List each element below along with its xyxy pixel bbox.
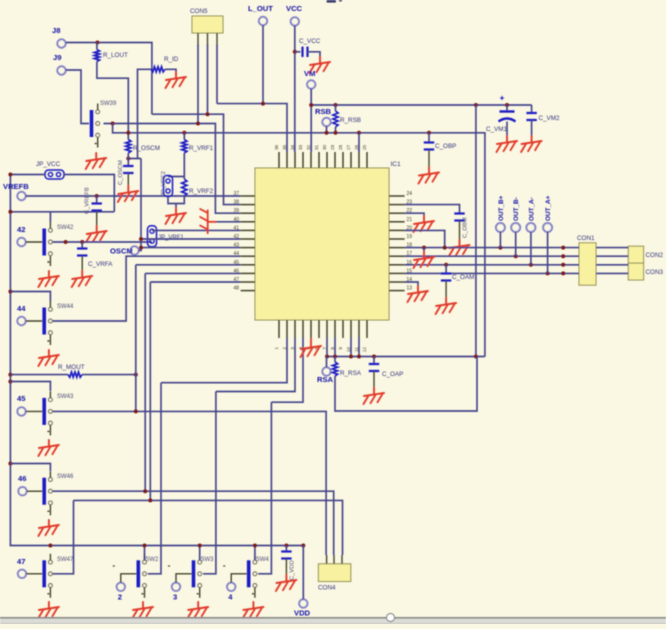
connector CON1 body: [579, 243, 596, 285]
wire VCC down to IC top pin: [294, 26, 296, 152]
svg-text:46: 46: [18, 474, 26, 483]
capacitor C_VDD: [281, 552, 291, 559]
port RSA: [322, 367, 330, 375]
wire CON1 to CON2 row2: [596, 255, 628, 257]
wire row17 to CON1: [405, 255, 579, 257]
connector CON4 body: [318, 564, 350, 582]
svg-text:21: 21: [407, 217, 413, 223]
wire row16 to CON1: [405, 264, 579, 266]
wire RSB stub: [326, 126, 328, 133]
capacitor C_OAP: [369, 364, 379, 371]
jumper JP_VRF2: [164, 176, 173, 197]
wire OSCM riser: [128, 159, 141, 251]
wire C_VDD bottom lead: [285, 559, 287, 576]
junction SW47 out: [48, 498, 152, 547]
wire rail y114 to IC pin38: [152, 114, 241, 204]
port J9: [57, 66, 65, 74]
wire rail y132 riser to IC top pin: [358, 133, 360, 152]
junction L_OUT net: [261, 102, 265, 106]
svg-text:42: 42: [17, 225, 25, 234]
svg-text:R_RSB: R_RSB: [340, 117, 361, 124]
switch SW46: [18, 471, 52, 515]
switch SW2: [113, 554, 147, 598]
svg-text:24: 24: [407, 191, 413, 197]
wire SW42 out to JP_VRF1: [53, 241, 152, 243]
wire R_RSA bottom loop: [335, 357, 477, 412]
wire CON5 pin1 down: [197, 45, 199, 124]
capacitor C_OSCM: [123, 166, 133, 173]
resistor R_ID: [151, 67, 165, 72]
ground at C_OBM: [449, 240, 470, 256]
wire vertical x476 down: [475, 105, 477, 357]
port 3: [172, 583, 180, 591]
svg-text:JP_VCC: JP_VCC: [36, 161, 61, 168]
port RSB: [322, 118, 330, 126]
wire VDD riser: [302, 546, 304, 600]
wire C_OBP bottom lead: [428, 150, 430, 168]
junction SW42 out: [64, 240, 85, 244]
port J8: [57, 39, 65, 47]
svg-text:J8: J8: [52, 26, 60, 35]
connector CON5 body: [192, 16, 223, 33]
svg-text:SW44: SW44: [57, 304, 74, 310]
wire VM down to IC top pin: [310, 89, 312, 152]
wire CON5 pin2 down: [207, 45, 209, 114]
junction VREFB C_VREFB: [95, 194, 99, 198]
svg-text:C_VRFA: C_VRFA: [88, 261, 113, 268]
svg-text:JP_VRF1: JP_VRF1: [158, 235, 184, 241]
wire port 3 to SW3: [176, 574, 192, 583]
wire IC pin47 riser: [150, 282, 240, 500]
capacitor C_VRFA: [77, 249, 87, 256]
wire R_RSA top lead: [334, 357, 336, 363]
junction C_VDD rail: [284, 544, 305, 548]
clipped text fragment at top edge: [327, 0, 343, 3]
svg-text:CON3: CON3: [646, 269, 664, 276]
wire IC pin14 stub to ground: [405, 282, 418, 286]
port 2: [117, 583, 125, 591]
svg-text:C_VM2: C_VM2: [539, 115, 560, 122]
junctions OUT rows: [422, 246, 565, 276]
svg-text:2: 2: [118, 593, 122, 602]
switch SW42: [17, 222, 52, 266]
wire OUT_B- stub: [515, 232, 517, 256]
wire IC pin20 jog: [405, 230, 445, 247]
ground at C_VREFB: [86, 226, 107, 242]
svg-text:27: 27: [346, 144, 351, 150]
wire C_OBP top lead: [428, 133, 430, 143]
ground under IC1: [301, 341, 322, 357]
wire C_VRFA top lead: [81, 242, 83, 249]
ground at SW47: [38, 602, 59, 618]
junction SW43 out: [134, 409, 138, 413]
wire CON1 to CON2 row1: [596, 247, 628, 249]
junction R_MOUT: [134, 373, 138, 377]
svg-text:19: 19: [407, 234, 413, 240]
ground at C_OAP: [364, 388, 385, 404]
wire C_VREFB top lead: [96, 196, 98, 204]
resistor R_MOUT: [68, 372, 82, 377]
wire SW39 out rail y123 to IC pin39: [104, 124, 241, 214]
wire OUT_A- stub: [530, 232, 532, 265]
wire J8 to rail: [66, 43, 152, 115]
svg-text:CON1: CON1: [577, 235, 595, 242]
wire C_OSCM bottom lead: [127, 173, 129, 186]
svg-text:12: 12: [362, 347, 367, 353]
ground at C_VM1: [497, 136, 518, 152]
junction J8 R_LOUT: [95, 41, 209, 117]
wire C_VCC right lead: [308, 52, 321, 57]
svg-text:44: 44: [17, 304, 26, 313]
wire SW2 out riser to IC bottom pin: [148, 338, 287, 574]
wire C_VRFA bottom lead: [81, 256, 83, 272]
wire C_OAP top lead: [373, 357, 375, 365]
svg-text:RSA: RSA: [317, 375, 334, 384]
svg-text:JP_VRF2: JP_VRF2: [161, 171, 167, 196]
IC U1 body IC1: [255, 168, 389, 320]
ground at C_OSCM: [118, 186, 139, 202]
jumper JP_VRF1: [148, 226, 157, 247]
wire C_VM1 top lead: [506, 105, 508, 112]
svg-text:C_OBM: C_OBM: [463, 217, 469, 238]
wire IC pin40 left to rake ground: [215, 221, 241, 223]
svg-text:RSB: RSB: [315, 107, 332, 116]
wire IC bottom pin risers to RSA net: [327, 338, 359, 357]
wire RSA stub: [326, 357, 328, 368]
wire C_VM2 top lead: [531, 105, 533, 113]
svg-text:CON5: CON5: [190, 8, 208, 15]
wire C_OAP bottom lead: [373, 371, 375, 388]
svg-text:SW4: SW4: [256, 557, 270, 563]
svg-text:29: 29: [330, 144, 335, 150]
switch SW44: [17, 301, 52, 345]
wire CON1 to CON3 row2: [596, 272, 628, 274]
wire SW46 out to CON4 pin2: [53, 491, 334, 555]
junctions rail y132: [126, 131, 431, 135]
ground at SW39: [86, 153, 107, 169]
wire C_VM1 bottom lead: [506, 122, 508, 137]
wire R_LOUT bottom to R_OSCM: [97, 62, 128, 140]
svg-text:R_VRF2: R_VRF2: [189, 188, 214, 195]
svg-text:C_OAP: C_OAP: [382, 371, 403, 378]
ground at R_ID: [166, 72, 187, 88]
wire SW47 out to CON4 pin3: [53, 500, 343, 573]
wire C_VREFB bottom lead: [96, 211, 98, 227]
wire VRF bottoms join: [168, 196, 184, 208]
wire OUT_B+ stub: [499, 232, 501, 248]
wire SW43 top feed: [10, 382, 50, 392]
svg-text:SW42: SW42: [57, 225, 74, 231]
wire R_VRF2 top lead: [183, 177, 185, 180]
wire OUT_A+ stub: [547, 232, 549, 273]
svg-text:47: 47: [17, 557, 25, 566]
wire CON5 pin3 to IC top pin net L_OUT: [217, 45, 287, 152]
wire SW44 top feed: [10, 292, 50, 302]
wire SW2 top contact to rail: [144, 546, 146, 561]
connector CON3 body: [628, 263, 643, 280]
svg-text:VCC: VCC: [286, 4, 303, 13]
svg-text:9: 9: [338, 347, 343, 350]
junction SW2 top rail: [143, 544, 147, 548]
wire row18 to CON1: [405, 247, 579, 249]
junctions OSCM riser: [126, 157, 143, 250]
svg-text:L_OUT: L_OUT: [248, 4, 273, 13]
wire port 4 to SW4: [231, 574, 247, 583]
svg-text:SW3: SW3: [201, 557, 215, 563]
ground at C_VDD: [276, 575, 297, 591]
svg-text:CON2: CON2: [646, 252, 664, 259]
IC1 pin numbers: [233, 144, 412, 352]
wire R_VRF1 bottom: [168, 153, 184, 177]
switch SW43: [17, 391, 52, 435]
svg-text:OUT_A-: OUT_A-: [528, 197, 535, 221]
switch SW47: [18, 554, 53, 598]
svg-text:SW47: SW47: [57, 557, 74, 563]
svg-text:C_OBP: C_OBP: [435, 143, 456, 150]
port VM: [307, 80, 315, 88]
svg-text:31: 31: [314, 144, 319, 150]
wire ground stem under IC1: [310, 338, 312, 341]
switch SW39: [92, 104, 100, 148]
port VCC: [291, 17, 299, 25]
port VREFB: [17, 192, 25, 200]
ground at SW42: [38, 271, 59, 287]
svg-text:SW46: SW46: [57, 474, 74, 480]
capacitor C_OAM: [441, 274, 451, 281]
wire JP_VRF1 top to IC pin41: [152, 229, 241, 231]
wire C_VDD top lead: [285, 546, 287, 552]
wire port 2 to SW2: [121, 574, 137, 583]
wire CON1 to CON3 row1: [596, 264, 628, 266]
svg-text:OSCM: OSCM: [110, 247, 133, 256]
wire rail y132 to right staircase: [113, 124, 485, 357]
port OUT_A+: [543, 223, 552, 232]
svg-text:C_VM1: C_VM1: [486, 126, 507, 133]
wire R_ID left down to OSCM net: [138, 69, 152, 158]
ground at SW46: [38, 520, 59, 536]
wire left rail: [10, 175, 303, 546]
capacitor C_OBM: [454, 214, 464, 221]
wire R_MOUT left lead: [10, 374, 68, 376]
svg-text:C_OSCM: C_OSCM: [118, 160, 124, 185]
svg-text:R_RSA: R_RSA: [340, 370, 362, 377]
wire C_OAM bottom lead: [445, 281, 447, 299]
svg-text:OUT_B-: OUT_B-: [513, 197, 520, 221]
wire SW43 out to CON4 pin1: [53, 411, 327, 555]
port OUT_B+: [496, 223, 505, 232]
wire SW3 top contact to rail: [199, 546, 201, 561]
wire R_LOUT top: [96, 43, 98, 50]
port 4: [227, 583, 235, 591]
capacitor C_VCC: [303, 47, 308, 57]
junction rail y123: [111, 122, 200, 126]
wire SW46 top feed: [10, 464, 50, 472]
junction SW46 out: [143, 489, 147, 493]
wire row15 to CON1: [405, 272, 579, 274]
wire C_OAM top lead: [445, 265, 447, 274]
ground at SW43: [38, 440, 59, 456]
wire SW44 out to IC pin44: [53, 256, 241, 321]
resistor R_VRF2: [182, 179, 187, 196]
port L_OUT: [259, 17, 267, 25]
ground at C_VRFA: [72, 271, 93, 287]
port OSCM: [130, 246, 138, 254]
IC1 pin stubs: [241, 152, 405, 338]
CON5 pin stubs: [198, 33, 217, 46]
wire IC pin46 riser: [145, 273, 241, 491]
svg-text:CON4: CON4: [318, 585, 336, 592]
port VDD: [299, 599, 307, 607]
resistor R_OSCM: [126, 140, 131, 154]
junction SW4 top rail: [253, 544, 257, 548]
svg-text:R_VRF1: R_VRF1: [189, 145, 214, 152]
wire R_ID right: [165, 69, 176, 72]
junctions left rail: [8, 173, 12, 466]
wire SW3 out riser to IC bottom pin: [203, 338, 295, 574]
svg-text:32: 32: [306, 144, 311, 150]
ground C right of IC: [408, 286, 429, 302]
ground at C_VM2: [521, 136, 542, 152]
ground at C_VCC: [310, 57, 331, 73]
svg-text:R_ID: R_ID: [164, 56, 179, 63]
connector CON2 body: [628, 246, 643, 263]
wire R_OSCM to C_OSCM: [127, 153, 129, 166]
svg-text:1: 1: [274, 347, 279, 350]
CON4 pin stubs: [327, 555, 342, 564]
junction VCC C_VCC: [293, 50, 297, 54]
svg-text:C_VREFB: C_VREFB: [85, 187, 91, 214]
capacitor C_OBP: [424, 143, 434, 150]
wire R_VRF1 top lead: [183, 133, 185, 140]
svg-text:36: 36: [274, 144, 279, 150]
capacitor C_VM1 polarized: [499, 96, 516, 122]
svg-text:45: 45: [17, 394, 26, 403]
wire rail y105 VM to C_VM2: [311, 104, 531, 106]
wire J9 to SW39: [66, 70, 89, 124]
svg-text:3: 3: [173, 593, 177, 602]
wire C_VM2 bottom lead: [531, 120, 533, 136]
svg-text:C_VDD: C_VDD: [290, 560, 296, 580]
svg-text:VREFB: VREFB: [3, 182, 29, 191]
svg-text:33: 33: [298, 144, 303, 150]
wire IC pin23 to C_OBM: [405, 205, 460, 214]
capacitor C_VREFB: [92, 204, 102, 211]
svg-text:IC1: IC1: [391, 161, 402, 168]
ground at C_OBP: [419, 168, 440, 184]
ground rake at IC pin40: [200, 209, 215, 233]
ground at R_VRF2: [166, 208, 187, 224]
svg-text:SW43: SW43: [57, 394, 74, 400]
svg-text:48: 48: [233, 286, 239, 292]
resistor R_VRF1: [182, 140, 187, 154]
window bottom border: [0, 619, 666, 625]
svg-text:SW2: SW2: [145, 557, 159, 563]
svg-text:OUT_A+: OUT_A+: [545, 195, 552, 221]
svg-text:OUT_B+: OUT_B+: [498, 195, 505, 221]
svg-text:SW39: SW39: [100, 101, 117, 107]
resistor R_RSB: [333, 111, 338, 127]
port OUT_A-: [526, 223, 535, 232]
wire IC pin45 riser: [136, 265, 241, 412]
switch SW3: [168, 554, 202, 598]
resistor R_LOUT: [94, 50, 99, 62]
svg-text:R_OSCM: R_OSCM: [133, 145, 160, 152]
junctions RSA net: [325, 355, 478, 359]
ground at SW2: [133, 602, 154, 618]
svg-text:13: 13: [407, 286, 413, 292]
svg-text:R_LOUT: R_LOUT: [103, 52, 128, 59]
svg-text:30: 30: [322, 144, 327, 150]
switch SW4: [223, 554, 257, 598]
capacitor C_VM2: [526, 113, 536, 120]
wire R_RSB leads: [335, 105, 337, 133]
wire SW4 top contact to rail: [254, 546, 256, 561]
svg-text:C_OAM: C_OAM: [452, 274, 474, 281]
wire JP_VCC left lead: [10, 174, 45, 176]
wire IC pin43 left: [141, 247, 241, 249]
wire IC pin42 left: [141, 238, 241, 240]
wire L_OUT port down: [262, 25, 264, 103]
port OUT_B-: [511, 223, 520, 232]
wire net RSA horizontal y356: [327, 356, 485, 358]
wire SW4 out riser to IC bottom pin: [258, 338, 303, 574]
wire C_OBM bottom lead: [459, 221, 461, 241]
wire C_VCC left lead: [295, 51, 301, 53]
wire R_MOUT right lead: [82, 374, 136, 376]
svg-text:25: 25: [362, 144, 367, 150]
wire VREFB to IC pin37: [26, 195, 241, 197]
svg-text:28: 28: [338, 144, 343, 150]
svg-text:C_VCC: C_VCC: [299, 38, 321, 45]
ground at C_OAM: [436, 298, 457, 314]
wire JP_VCC right lead to SW42 top: [10, 175, 114, 223]
ground at SW4: [243, 602, 264, 618]
ground A right of IC: [414, 216, 435, 232]
ground at SW3: [188, 602, 209, 618]
svg-text:J9: J9: [53, 53, 61, 62]
junctions rail y105: [309, 103, 509, 107]
wire ground B stem: [423, 248, 425, 252]
jumper JP_VCC: [45, 170, 64, 179]
ground at SW44: [38, 350, 59, 366]
wire IC pin22 stub to ground: [405, 213, 424, 216]
resistor R_RSA: [332, 362, 337, 376]
svg-text:VDD: VDD: [294, 609, 311, 618]
ground B right of IC: [414, 252, 435, 268]
junction SW3 top rail: [198, 544, 202, 548]
svg-text:VM: VM: [304, 69, 315, 78]
